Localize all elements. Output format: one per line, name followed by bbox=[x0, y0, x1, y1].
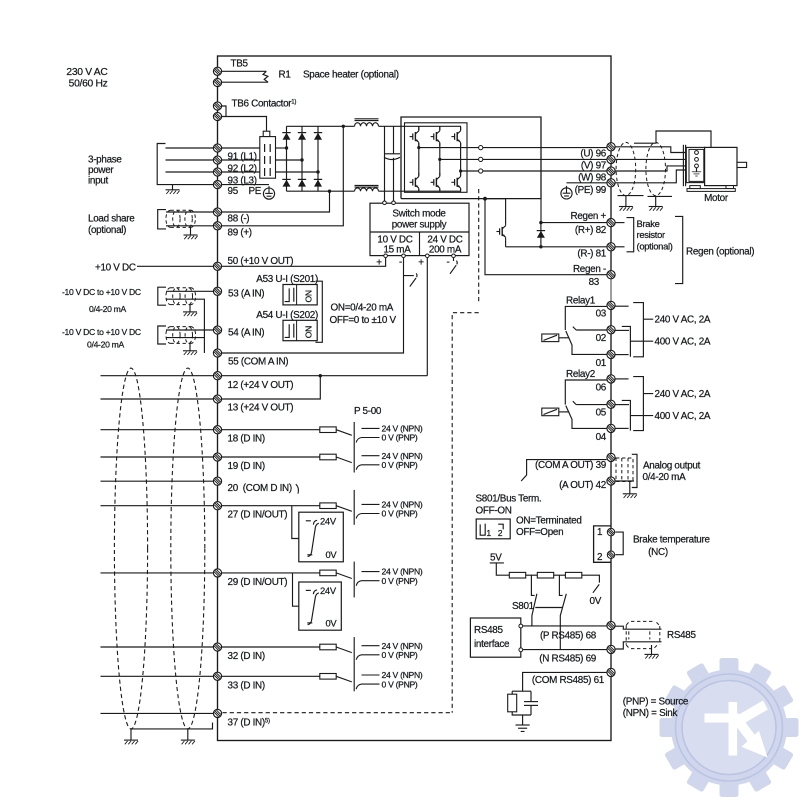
relay2 contact arm bbox=[566, 406, 607, 429]
S801 switch stub 2 bbox=[559, 575, 562, 595]
motor cable shield ellipse 1 bbox=[616, 142, 636, 195]
wire 81 right stub bbox=[615, 246, 624, 248]
IGBT column 1 bbox=[418, 126, 420, 190]
wire phase V tap bbox=[440, 158, 479, 160]
resistor/switch row 33 bbox=[320, 670, 423, 689]
svg-text:(PNP) = Source: (PNP) = Source bbox=[623, 697, 689, 708]
svg-text:55 (COM A IN): 55 (COM A IN) bbox=[228, 357, 288, 368]
svg-text:32 (D IN): 32 (D IN) bbox=[228, 651, 265, 662]
terminal 06 bbox=[607, 375, 615, 383]
switch stub 24V- bbox=[450, 258, 457, 274]
node N out bbox=[519, 648, 523, 652]
digital input/output 29 bbox=[101, 567, 423, 631]
terminal TB6-2 bbox=[213, 112, 221, 120]
node SMPS 24V- bbox=[452, 254, 456, 258]
contactor TB6 bbox=[263, 131, 270, 136]
digital input 18 bbox=[101, 424, 423, 445]
motor feet bbox=[690, 186, 701, 189]
svg-text:2: 2 bbox=[597, 552, 602, 563]
bracket brake resistor bbox=[627, 218, 634, 252]
svg-text:1: 1 bbox=[597, 527, 603, 538]
wire 13 left bbox=[101, 398, 214, 400]
switch bus segment 27 bbox=[353, 490, 355, 525]
terminal 82 bbox=[607, 219, 615, 227]
wire RT1-RT2 bbox=[526, 574, 538, 576]
DC- bottom bus bbox=[287, 190, 355, 192]
svg-text:(R+) 82: (R+) 82 bbox=[575, 225, 606, 236]
terminal 55 bbox=[213, 349, 221, 357]
wire 54 return bbox=[166, 337, 204, 339]
mode box 29 bbox=[299, 582, 342, 630]
svg-text:06: 06 bbox=[596, 383, 607, 394]
bracket regen optional bbox=[675, 216, 683, 283]
svg-text:Relay2: Relay2 bbox=[566, 369, 595, 380]
svg-text:ON: ON bbox=[304, 326, 314, 338]
resistor/switch row 27 bbox=[320, 500, 423, 519]
bracket relay1 400V bbox=[622, 326, 653, 356]
svg-text:ON: ON bbox=[304, 290, 314, 302]
wire PE 99 left stub bbox=[567, 182, 607, 184]
svg-text:0/4-20 mA: 0/4-20 mA bbox=[643, 472, 687, 483]
svg-text:OFF=Open: OFF=Open bbox=[516, 527, 563, 538]
svg-text:20 (COM D IN): 20 (COM D IN) bbox=[228, 483, 292, 494]
digital input 33 bbox=[101, 670, 423, 691]
terminal 19 bbox=[213, 453, 221, 461]
dashed control link to gate bbox=[478, 189, 480, 304]
svg-text:400 V AC, 2A: 400 V AC, 2A bbox=[655, 411, 711, 422]
svg-text:0/4-20 mA: 0/4-20 mA bbox=[87, 340, 125, 350]
svg-text:S801/Bus Term.: S801/Bus Term. bbox=[476, 494, 542, 505]
wire tap to mode box 29 bbox=[293, 573, 299, 606]
svg-text:-10 V DC to +10 V DC: -10 V DC to +10 V DC bbox=[62, 327, 141, 337]
svg-text:(optional): (optional) bbox=[637, 241, 673, 252]
DC- bus to inverter bbox=[379, 190, 462, 192]
terminal 98 bbox=[607, 167, 615, 175]
DIP switch A53 bbox=[283, 285, 317, 305]
junction node L3-col3 bbox=[316, 170, 319, 173]
wire 27 left bbox=[101, 505, 214, 507]
control cable shield ellipse E2 bbox=[171, 368, 205, 729]
svg-text:Relay1: Relay1 bbox=[566, 295, 596, 306]
bracket A53/A54 bbox=[315, 281, 322, 342]
mode box 27 bbox=[299, 512, 344, 562]
wire L1 input bbox=[166, 147, 214, 149]
terminal 68 bbox=[607, 621, 615, 629]
wire 42 right bbox=[615, 480, 634, 482]
terminal TB5-2 bbox=[213, 78, 221, 86]
common digital 20 bbox=[101, 477, 299, 494]
terminal 88 bbox=[213, 208, 221, 216]
resistor/switch row 18 bbox=[320, 424, 423, 443]
node SMPS 10V+ bbox=[384, 254, 388, 258]
motor shaft bbox=[737, 162, 747, 167]
drive enclosure main box bbox=[218, 56, 612, 741]
IGBT Q2 bbox=[435, 130, 445, 143]
terminal 61 bbox=[607, 668, 615, 676]
bracket 54 bbox=[158, 326, 166, 344]
svg-text:Regen +: Regen + bbox=[570, 211, 606, 222]
terminal 81 bbox=[607, 243, 615, 251]
wire Regen- 83 bbox=[485, 199, 607, 275]
terminal 39 bbox=[607, 453, 615, 461]
terminal 69 bbox=[607, 645, 615, 653]
svg-text:(COM RS485) 61: (COM RS485) 61 bbox=[532, 675, 605, 686]
wire 27 right bbox=[222, 505, 320, 507]
svg-text:5V: 5V bbox=[490, 552, 502, 563]
analog input 54 section bbox=[62, 326, 288, 368]
svg-text:240 V AC, 2A: 240 V AC, 2A bbox=[655, 315, 711, 326]
junction 13-12 bbox=[319, 374, 322, 377]
wire phase W tap bbox=[461, 170, 479, 172]
wire 69 to connector bbox=[615, 642, 661, 649]
resistor RT1 bbox=[509, 572, 525, 578]
svg-text:04: 04 bbox=[596, 432, 607, 443]
svg-text:15 mA: 15 mA bbox=[383, 245, 411, 256]
switch to 0V bbox=[593, 584, 599, 592]
RS485 interface box bbox=[470, 618, 520, 657]
diode D4 bbox=[282, 179, 290, 186]
svg-text:power: power bbox=[88, 165, 114, 176]
wire relay1 common 03 bbox=[565, 306, 606, 330]
rectifier column 1 bbox=[286, 126, 288, 191]
svg-text:Motor: Motor bbox=[704, 193, 729, 204]
wire 33 right bbox=[222, 675, 320, 677]
svg-text:91 (L1): 91 (L1) bbox=[228, 152, 257, 163]
resistor/switch row 19 bbox=[320, 451, 423, 470]
svg-text:-: - bbox=[399, 257, 402, 268]
bracket analog output bbox=[632, 454, 637, 487]
digital input/output 27 bbox=[101, 500, 423, 562]
svg-text:(NPN) = Sink: (NPN) = Sink bbox=[623, 708, 678, 719]
wire 32 left bbox=[101, 646, 214, 648]
wire TB5 top to R1 bbox=[222, 70, 266, 72]
svg-text:01: 01 bbox=[596, 358, 607, 369]
bracket relay2 400V bbox=[622, 400, 653, 430]
shield load share cable bbox=[166, 210, 196, 227]
wire 20 hook bbox=[296, 484, 299, 493]
DIP switch S801 box bbox=[476, 519, 510, 539]
wire RT2-RT3 bbox=[554, 574, 566, 576]
5V rail tick bbox=[490, 563, 510, 575]
svg-text:P 5-00: P 5-00 bbox=[354, 406, 382, 417]
junction W tap bbox=[459, 169, 462, 172]
ground RS485 shield bbox=[651, 645, 653, 654]
svg-text:S801: S801 bbox=[512, 601, 535, 612]
IGBT column 2 bbox=[439, 126, 441, 190]
transistor brake IGBT bbox=[496, 222, 505, 241]
wire L3 input bbox=[166, 171, 214, 173]
svg-text:2: 2 bbox=[498, 528, 503, 538]
terminal 91 bbox=[213, 144, 221, 152]
inverter inner IGBT box bbox=[405, 123, 468, 193]
svg-text:1: 1 bbox=[486, 528, 491, 538]
terminal BT1 bbox=[607, 528, 614, 535]
svg-text:54 (A IN): 54 (A IN) bbox=[228, 327, 264, 338]
wire DC- to brake IGBT bbox=[485, 199, 506, 223]
resistor/switch row 29 bbox=[320, 567, 423, 586]
svg-text:PE: PE bbox=[249, 186, 262, 197]
motor terminal box bbox=[686, 147, 704, 182]
terminal 12 bbox=[213, 372, 221, 380]
svg-text:83: 83 bbox=[589, 277, 600, 288]
diode brake freewheel bbox=[540, 223, 542, 247]
terminal 50 bbox=[213, 262, 221, 270]
motor cable shield ellipse 2 bbox=[646, 142, 666, 195]
wire brake temp loop bbox=[615, 532, 623, 555]
+10V out section bbox=[95, 256, 293, 274]
wire 82 right stub bbox=[615, 222, 624, 224]
svg-text:200 mA: 200 mA bbox=[429, 245, 462, 256]
ground load share shield bbox=[190, 227, 192, 235]
wire 29 right bbox=[222, 572, 320, 574]
svg-text:0V: 0V bbox=[590, 596, 602, 607]
relay Relay2 bbox=[542, 369, 711, 443]
svg-text:19 (D IN): 19 (D IN) bbox=[228, 461, 265, 472]
wire 93 to contactor bbox=[222, 171, 260, 173]
terminal TB6-1 bbox=[213, 102, 221, 110]
bracket load share bbox=[158, 210, 166, 229]
terminal 20 bbox=[213, 477, 221, 485]
terminal TB5-1 bbox=[213, 67, 221, 75]
wire 20 left bbox=[101, 480, 214, 482]
resistor RC term bbox=[508, 694, 517, 712]
ground 53 shield bbox=[189, 305, 191, 312]
24V out terminals 12/13 bbox=[101, 372, 428, 414]
analog output module dashed box bbox=[616, 458, 633, 482]
ground analog output bbox=[629, 481, 631, 494]
svg-text:18 (D IN): 18 (D IN) bbox=[228, 434, 265, 445]
shield drain link bbox=[131, 723, 213, 729]
wire 02 right stub bbox=[615, 329, 629, 331]
S801 link bar bbox=[535, 607, 563, 609]
ground input PE bbox=[172, 185, 174, 190]
svg-text:A54 U-I (S202): A54 U-I (S202) bbox=[256, 310, 318, 321]
wire 18 left bbox=[101, 429, 214, 431]
svg-text:88 (-): 88 (-) bbox=[228, 214, 250, 225]
IGBT Q6 bbox=[456, 176, 466, 189]
wire 54 signal bbox=[166, 329, 213, 331]
PE symbol at 99 bbox=[561, 186, 572, 199]
wire 29 left bbox=[101, 572, 214, 574]
wire PE to motor bbox=[615, 170, 688, 183]
node V output circle bbox=[479, 157, 483, 161]
svg-text:92 (L2): 92 (L2) bbox=[228, 164, 257, 175]
svg-text:-: - bbox=[447, 257, 450, 268]
svg-text:24V: 24V bbox=[320, 585, 337, 596]
svg-text:24V: 24V bbox=[320, 515, 337, 526]
wire 12 left bbox=[101, 375, 214, 377]
diode D1 bbox=[282, 133, 290, 140]
svg-text:(COM A OUT) 39: (COM A OUT) 39 bbox=[535, 460, 607, 471]
wire U to motor bbox=[615, 147, 694, 153]
wire SMPS 10V+ to terminal 50 bbox=[222, 258, 386, 267]
svg-text:Space heater (optional): Space heater (optional) bbox=[303, 70, 399, 81]
digital input 19 bbox=[101, 451, 423, 472]
svg-text:ON=0/4-20 mA: ON=0/4-20 mA bbox=[331, 303, 394, 314]
rectifier column 2 bbox=[301, 126, 303, 191]
terminal 33 bbox=[213, 672, 221, 680]
motor bbox=[683, 145, 746, 204]
terminal 89 bbox=[213, 222, 221, 230]
svg-text:03: 03 bbox=[596, 308, 607, 319]
diode D5 bbox=[298, 179, 306, 186]
IGBT Q5 bbox=[435, 176, 445, 189]
analog output section bbox=[521, 453, 700, 498]
wire RT3 to 0V switch bbox=[582, 575, 600, 582]
control cable shield ellipse E1 bbox=[114, 368, 147, 729]
analog input 53 section bbox=[62, 287, 264, 353]
node SMPS 10V- bbox=[402, 254, 406, 258]
junction node L1-col1 bbox=[285, 146, 288, 149]
svg-text:0/4-20 mA: 0/4-20 mA bbox=[89, 304, 127, 314]
shield 53 bbox=[166, 288, 196, 305]
wire TB6 stubs and link bbox=[222, 106, 267, 131]
relay Relay1 bbox=[542, 295, 711, 369]
wire tap to mode box 27 bbox=[292, 506, 299, 539]
wire V to motor bbox=[615, 158, 694, 160]
node SMPS DC input right bbox=[392, 201, 396, 205]
svg-text:33 (D IN): 33 (D IN) bbox=[228, 680, 265, 691]
wire contactor to rectifier L1 bbox=[276, 147, 287, 149]
wire relay1 NC 02 bbox=[573, 327, 607, 330]
wire 06 right stub bbox=[615, 378, 628, 380]
node P out bbox=[519, 624, 523, 628]
svg-text:(optional): (optional) bbox=[88, 225, 126, 236]
ground RC term bbox=[515, 725, 529, 731]
brake temp box bbox=[594, 526, 611, 562]
wire 53 signal bbox=[166, 290, 213, 292]
IGBT column 3 bbox=[460, 126, 462, 190]
motor internal ground bbox=[696, 168, 698, 172]
wire 19 left bbox=[101, 456, 214, 458]
svg-text:(U) 96: (U) 96 bbox=[580, 149, 606, 160]
shield bottom bond 1 bbox=[618, 196, 644, 207]
motor body bbox=[705, 147, 737, 185]
brake temperature switch bbox=[594, 526, 711, 563]
svg-text:3-phase: 3-phase bbox=[88, 155, 122, 166]
junction 88 bus bbox=[328, 190, 331, 193]
wire 89 to DC+ bus bbox=[222, 126, 343, 226]
RS485 interface bbox=[470, 618, 696, 731]
svg-text:0V: 0V bbox=[326, 617, 338, 628]
capacitor RC term bbox=[524, 701, 538, 703]
terminal 37 bbox=[213, 709, 221, 717]
diode D3 bbox=[314, 133, 322, 140]
svg-text:+10 V DC: +10 V DC bbox=[95, 262, 136, 273]
DC+ bus to inverter bbox=[379, 125, 462, 127]
brake chopper DC- tap bbox=[483, 197, 487, 201]
wire 92 to contactor bbox=[222, 159, 260, 161]
svg-text:12 (+24 V OUT): 12 (+24 V OUT) bbox=[228, 380, 294, 391]
resistor R1 space heater element bbox=[263, 71, 268, 82]
bracket relay2 240V bbox=[633, 377, 653, 431]
svg-text:(NC): (NC) bbox=[648, 547, 668, 558]
switch mode power supply box bbox=[370, 203, 469, 255]
DC link inductor top bbox=[355, 118, 379, 120]
terminal 29 bbox=[213, 569, 221, 577]
motor terminal circles bbox=[695, 151, 699, 155]
terminal 53 bbox=[213, 287, 221, 295]
A53 A54 DIP switches bbox=[256, 274, 396, 342]
switch stub 10V- bbox=[404, 273, 418, 286]
wire V to terminal 97 bbox=[483, 158, 607, 160]
junction 89 bus bbox=[342, 125, 345, 128]
svg-text:R1: R1 bbox=[279, 70, 292, 81]
wire 18 right bbox=[222, 429, 320, 431]
svg-text:400 V AC, 2A: 400 V AC, 2A bbox=[655, 337, 711, 348]
wire 33 left bbox=[101, 675, 214, 677]
gray Regen- net segment (83 to 03) bbox=[610, 278, 612, 302]
wire 32 right bbox=[222, 646, 320, 648]
shield top bond wire to motor bbox=[634, 131, 711, 147]
terminal 18 bbox=[213, 426, 221, 434]
wire 91 to contactor bbox=[222, 147, 260, 149]
svg-text:53 (A IN): 53 (A IN) bbox=[228, 289, 264, 300]
svg-text:Regen -: Regen - bbox=[573, 264, 606, 275]
svg-text:RS485: RS485 bbox=[667, 630, 697, 641]
resistor RT3 bbox=[565, 572, 581, 578]
ground 54 shield bbox=[189, 343, 191, 350]
DC bus capacitor bbox=[384, 126, 386, 202]
RS485 cable shield dashes bbox=[626, 621, 660, 648]
wire phase U tap bbox=[419, 147, 479, 149]
shield bottom bond 2 bbox=[648, 196, 673, 206]
svg-text:Brake temperature: Brake temperature bbox=[633, 534, 710, 545]
node SMPS DC input left bbox=[383, 201, 387, 205]
terminal 04 bbox=[607, 424, 615, 432]
wire L2 input bbox=[166, 159, 214, 161]
wire SMPS 24V+ down to 12 bbox=[426, 258, 428, 376]
svg-text:(R-) 81: (R-) 81 bbox=[577, 248, 606, 259]
resistor RT2 bbox=[537, 572, 553, 578]
svg-text:05: 05 bbox=[596, 407, 607, 418]
inverter outer box bbox=[401, 117, 541, 199]
terminal 42 bbox=[607, 477, 615, 485]
svg-text:TB5: TB5 bbox=[231, 59, 249, 70]
5V termination network bbox=[490, 552, 602, 649]
rectifier column 3 bbox=[317, 126, 319, 191]
wire 37 left bbox=[101, 712, 214, 714]
junction diode top bbox=[539, 221, 542, 224]
svg-text:(P RS485) 68: (P RS485) 68 bbox=[540, 631, 597, 642]
DIP switch A54 bbox=[283, 320, 317, 340]
S801 blade 1 bbox=[532, 594, 537, 626]
wire N RS485 69 bbox=[523, 649, 607, 651]
switch bus segment 29 bbox=[353, 562, 355, 598]
wire 50 left bbox=[137, 265, 213, 267]
wire 04 right stub bbox=[615, 427, 628, 429]
wire 88 to DC- bus bbox=[222, 191, 330, 212]
svg-text:power supply: power supply bbox=[392, 220, 447, 231]
svg-text:95: 95 bbox=[228, 186, 239, 197]
resistor/switch row 32 bbox=[320, 641, 423, 660]
terminal 99 bbox=[607, 179, 615, 187]
svg-text:Brake: Brake bbox=[637, 218, 660, 229]
svg-text:02: 02 bbox=[596, 333, 606, 344]
svg-text:(V) 97: (V) 97 bbox=[581, 160, 606, 171]
wire COM A OUT arrow bbox=[521, 460, 533, 481]
wire U to terminal 96 bbox=[483, 147, 607, 149]
digital input 32 bbox=[101, 641, 423, 662]
terminal 97 bbox=[607, 155, 615, 163]
node W output circle bbox=[479, 169, 483, 173]
terminal 93 bbox=[213, 168, 221, 176]
svg-text:A53 U-I (S201): A53 U-I (S201) bbox=[256, 274, 318, 285]
switch bus segment 18-19 bbox=[353, 422, 355, 473]
wire 39 left bbox=[533, 459, 607, 461]
wire PE input bbox=[166, 184, 214, 186]
wire 88 bbox=[166, 211, 213, 213]
